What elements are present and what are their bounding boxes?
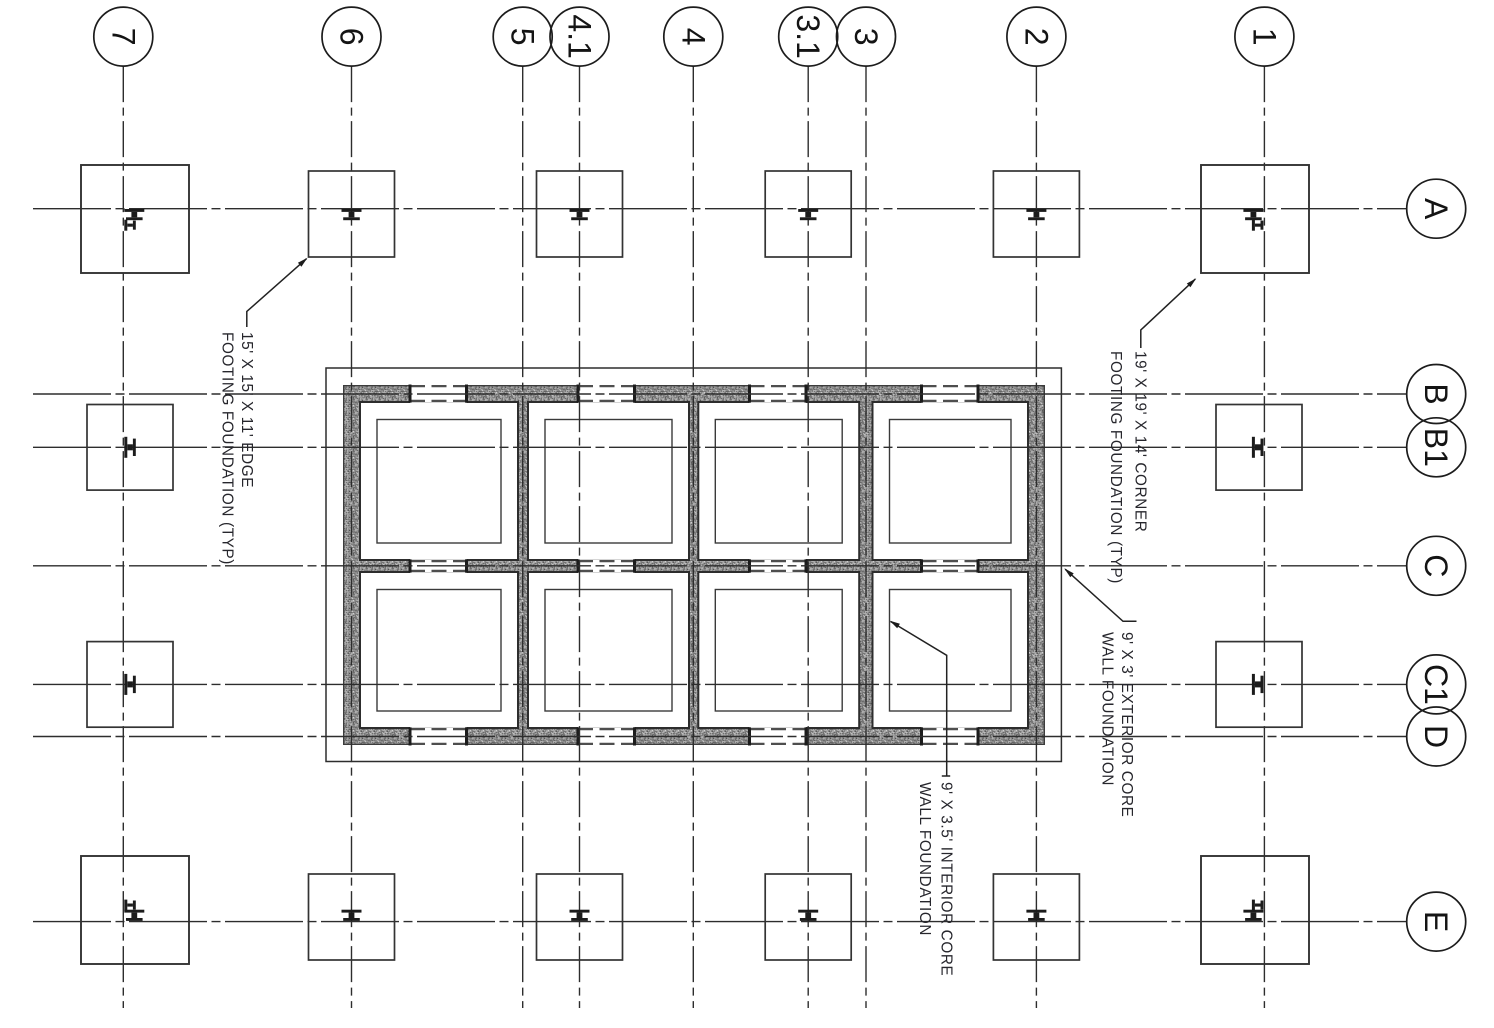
annotation leader - interior core wall (to interior wall at cell 4) xyxy=(891,622,951,777)
corner footing 1/E (19x19x14) xyxy=(1201,856,1309,964)
column symbol 2/E xyxy=(1026,910,1046,921)
edge footing 7/C1 (15x15x11) xyxy=(87,642,173,728)
wall openings (white gaps) xyxy=(410,384,467,403)
interior core wall stipple - vertical wall 2 xyxy=(689,402,698,728)
vertical grid lines 7,6,5,4.1,4,3.1,3,2,1 xyxy=(122,66,124,1008)
svg-text:19' X 19' X 14' CORNER: 19' X 19' X 14' CORNER xyxy=(1132,351,1149,532)
annotation leader - corner footing (to 1/A footing corner) xyxy=(1141,279,1196,348)
edge footing 2/A (15x15x11) xyxy=(993,171,1079,257)
column symbol 2/A xyxy=(1026,209,1046,220)
svg-text:5: 5 xyxy=(505,28,541,46)
column symbol 1/B1 xyxy=(1252,437,1264,458)
interior core wall stipple - vertical wall 3 xyxy=(859,402,872,728)
grid bubble D (right) xyxy=(1407,707,1466,766)
grid bubble 6 (top) xyxy=(322,7,381,66)
grid bubble 3.1 (top) xyxy=(779,7,838,66)
edge footing 7/B1 (15x15x11) xyxy=(87,405,173,491)
grid bubble E (right) xyxy=(1407,892,1466,951)
interior core wall stipple - middle horizontal wall xyxy=(360,560,1028,572)
svg-text:9' X 3' EXTERIOR CORE: 9' X 3' EXTERIOR CORE xyxy=(1118,632,1135,817)
column symbol 7/A xyxy=(124,209,144,220)
edge footing 3.1/E (15x15x11) xyxy=(765,874,851,960)
column symbol 4.1/A xyxy=(570,209,590,220)
svg-text:A: A xyxy=(1418,198,1454,220)
edge footing 4.1/E (15x15x11) xyxy=(537,874,623,960)
horizontal grid lines A,B,B1,C,C1,D,E xyxy=(33,208,1407,210)
svg-text:6: 6 xyxy=(334,28,370,46)
grid bubble 1 (top) xyxy=(1235,7,1294,66)
grid bubble 5 (top) xyxy=(493,7,552,66)
svg-text:B1: B1 xyxy=(1418,428,1454,467)
exterior core wall outer face line xyxy=(344,386,1045,745)
svg-text:4.1: 4.1 xyxy=(562,14,598,58)
grid bubble 3 (top) xyxy=(837,7,896,66)
column symbol 4.1/E xyxy=(570,910,590,921)
grid bubble 7 (top) xyxy=(94,7,153,66)
svg-text:3.1: 3.1 xyxy=(790,14,826,58)
svg-text:WALL FOUNDATION: WALL FOUNDATION xyxy=(1098,632,1115,786)
grid bubble C1 (right) xyxy=(1407,655,1466,714)
column symbol 7/C1 xyxy=(124,674,135,695)
svg-text:B: B xyxy=(1418,383,1454,404)
edge footing 1/B1 (15x15x11) xyxy=(1216,405,1302,491)
edge footing 3.1/A (15x15x11) xyxy=(765,171,851,257)
column symbol 3.1/A xyxy=(798,209,818,220)
column symbol 7/E xyxy=(124,910,144,921)
grid bubble B1 (right) xyxy=(1407,418,1466,477)
column symbol 3.1/E xyxy=(798,910,818,921)
svg-text:D: D xyxy=(1418,725,1454,748)
grid bubble B (right) xyxy=(1407,365,1466,424)
edge footing 2/E (15x15x11) xyxy=(993,874,1079,960)
annotation leader - exterior core wall (to core right edge at C) xyxy=(1065,569,1136,621)
svg-text:9' X 3.5' INTERIOR CORE: 9' X 3.5' INTERIOR CORE xyxy=(937,782,954,976)
edge footing 6/A (15x15x11) xyxy=(309,171,395,257)
grid bubble 2 (top) xyxy=(1007,7,1066,66)
core foundation outer outline xyxy=(326,368,1061,762)
corner footing 1/A (19x19x14) xyxy=(1201,165,1309,273)
svg-text:E: E xyxy=(1418,911,1454,932)
svg-text:4: 4 xyxy=(675,28,711,46)
svg-text:C: C xyxy=(1418,554,1454,577)
svg-text:WALL FOUNDATION: WALL FOUNDATION xyxy=(916,782,933,936)
core wall stipple frame (exterior core walls) xyxy=(343,385,1045,745)
grid bubble 4.1 (top) xyxy=(550,7,609,66)
wall opening hidden edges and jamb bars xyxy=(410,385,467,387)
grid bubble A (right) xyxy=(1407,179,1466,238)
edge footing 4.1/A (15x15x11) xyxy=(537,171,623,257)
svg-text:C1: C1 xyxy=(1418,664,1454,705)
grid bubble C (right) xyxy=(1407,536,1466,595)
core cell inner squares (8) xyxy=(377,420,501,544)
svg-text:7: 7 xyxy=(105,28,141,46)
column symbol 6/E xyxy=(342,910,362,921)
interior core wall stipple - vertical wall 1 xyxy=(518,402,528,728)
svg-text:FOOTING FOUNDATION (TYP): FOOTING FOUNDATION (TYP) xyxy=(219,332,236,565)
annotation leader - edge footing (to 6/A footing corner) xyxy=(247,259,307,327)
column symbol 1/A xyxy=(1243,209,1263,220)
corner footing 7/A (19x19x14) xyxy=(81,165,189,273)
column symbol 1/E xyxy=(1243,910,1263,921)
column symbol 7/B1 xyxy=(124,437,135,458)
svg-text:1: 1 xyxy=(1246,28,1282,46)
grid bubble 4 (top) xyxy=(664,7,723,66)
svg-text:3: 3 xyxy=(848,28,884,46)
edge footing 1/C1 (15x15x11) xyxy=(1216,642,1302,728)
column symbol 6/A xyxy=(342,209,362,220)
column symbol 1/C1 xyxy=(1252,674,1264,695)
svg-text:2: 2 xyxy=(1018,28,1054,46)
corner footing 7/E (19x19x14) xyxy=(81,856,189,964)
core cell boundaries (8 cells) xyxy=(360,402,518,560)
svg-text:15' X 15' X 11' EDGE: 15' X 15' X 11' EDGE xyxy=(238,332,255,488)
edge footing 6/E (15x15x11) xyxy=(309,874,395,960)
svg-text:FOOTING FOUNDATION (TYP): FOOTING FOUNDATION (TYP) xyxy=(1107,351,1124,584)
